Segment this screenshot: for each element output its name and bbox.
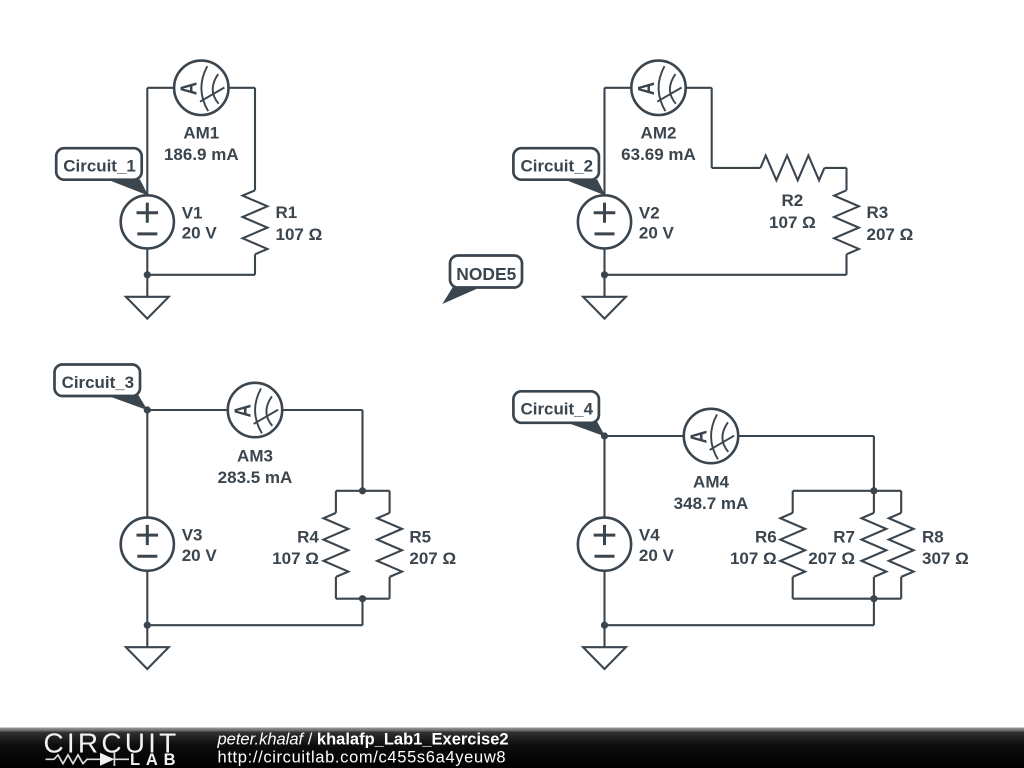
wire C4 top-right horizontal (739, 435, 874, 437)
wire C3 below parallel block (361, 599, 363, 626)
wire C3 right vertical into parallel block (361, 410, 363, 491)
wire C3 R4 top stub (335, 491, 337, 513)
wire C3 V3 bottom lead (146, 571, 148, 626)
wire C1 right vertical to R1 (254, 88, 256, 191)
wire C2 R2 to corner (824, 167, 846, 169)
wire C2 V2 bottom lead (603, 248, 605, 274)
svg-text:R2: R2 (782, 191, 804, 210)
svg-text:peter.khalaf / khalafp_Lab1_Ex: peter.khalaf / khalafp_Lab1_Exercise2 (217, 731, 509, 749)
wire C3 R4 bottom stub (335, 577, 337, 599)
node label callout Circuit_1 (56, 148, 148, 195)
svg-text:R6: R6 (755, 528, 777, 547)
ground C2 (583, 275, 626, 319)
svg-text:107 Ω: 107 Ω (272, 549, 319, 568)
wire C3 parallel top bar (336, 490, 390, 492)
node label callout Circuit_2 (513, 148, 605, 195)
resistor R2 (760, 156, 824, 181)
svg-text:R3: R3 (867, 203, 889, 222)
node junction dot C4 parallel bottom (870, 595, 877, 602)
svg-text:207 Ω: 207 Ω (867, 225, 914, 244)
footer bar (0, 728, 1024, 768)
wire C4 left vertical (603, 436, 605, 518)
svg-text:LAB: LAB (130, 751, 181, 768)
wire C2 left vertical (603, 88, 605, 196)
node junction dot C3 top-left (144, 406, 151, 413)
svg-text:V2: V2 (639, 203, 660, 222)
svg-text:AM3: AM3 (237, 446, 273, 465)
ammeter AM4 (684, 409, 738, 463)
svg-text:V3: V3 (182, 526, 203, 545)
resistor R6 (780, 513, 805, 577)
svg-text:Circuit_1: Circuit_1 (63, 157, 136, 176)
wire C2 R3 top lead (845, 168, 847, 190)
node junction dot C4 bottom-left (601, 622, 608, 629)
svg-text:AM1: AM1 (183, 124, 219, 143)
resistor R7 (862, 513, 887, 577)
svg-text:207 Ω: 207 Ω (808, 549, 855, 568)
svg-text:V4: V4 (639, 526, 660, 545)
voltage source V2 (578, 195, 631, 248)
wire C2 horizontal to R2 (712, 167, 761, 169)
node junction dot C2 (601, 271, 608, 278)
wire C4 top-left horizontal (605, 435, 684, 437)
wire C4 right vertical into parallel block (873, 436, 875, 491)
wire C4 R6 top stub (792, 491, 794, 513)
svg-text:R1: R1 (276, 203, 298, 222)
svg-text:Circuit_4: Circuit_4 (521, 400, 594, 419)
wire C4 R8 top stub (900, 491, 902, 513)
svg-text:R7: R7 (833, 528, 855, 547)
ammeter AM2 (631, 61, 685, 115)
logo diode triangle (100, 753, 114, 766)
svg-text:R8: R8 (922, 528, 944, 547)
ground C1 (126, 275, 169, 319)
svg-text:AM4: AM4 (693, 473, 729, 492)
logo resistor squiggle and diode (46, 753, 130, 766)
svg-text:348.7 mA: 348.7 mA (674, 494, 749, 513)
ammeter AM1 (174, 61, 228, 115)
wire C2 top-right horizontal (686, 87, 712, 89)
wire C4 parallel top bar (793, 490, 902, 492)
wire C3 top-left horizontal (147, 409, 227, 411)
wire C1 bottom horizontal (147, 274, 255, 276)
node label callout NODE5 (442, 256, 522, 305)
svg-text:207 Ω: 207 Ω (409, 549, 456, 568)
svg-text:V1: V1 (182, 203, 203, 222)
wire C1 top-right horizontal (229, 87, 255, 89)
wire C2 mid vertical (711, 88, 713, 168)
wire C4 V4 bottom lead (603, 571, 605, 626)
svg-text:107 Ω: 107 Ω (276, 225, 323, 244)
svg-text:20 V: 20 V (639, 224, 675, 243)
svg-text:Circuit_2: Circuit_2 (521, 157, 594, 176)
wire C3 left vertical (146, 410, 148, 518)
node junction dot C4 top-left (601, 432, 608, 439)
voltage source V1 (121, 195, 174, 248)
ammeter AM3 (228, 383, 282, 437)
svg-text:AM2: AM2 (641, 124, 677, 143)
wire C4 R7 bottom stub (873, 577, 875, 599)
wire C1 left vertical (146, 88, 148, 196)
node junction dot C3 parallel bottom (359, 595, 366, 602)
resistor R1 (243, 190, 268, 254)
ground C3 (126, 625, 169, 669)
svg-text:20 V: 20 V (182, 224, 218, 243)
wire C1 top-left horizontal (147, 87, 174, 89)
wire C2 bottom horizontal (605, 274, 847, 276)
resistor R4 (324, 513, 349, 577)
svg-text:20 V: 20 V (182, 546, 218, 565)
wire C3 top-right horizontal (283, 409, 363, 411)
node junction dot C3 parallel top (359, 487, 366, 494)
wire C1 V1 bottom lead (146, 248, 148, 274)
voltage source V4 (578, 518, 631, 571)
resistor R3 (834, 190, 859, 254)
wire C4 below parallel block (873, 599, 875, 626)
wire C3 parallel bottom bar (336, 598, 390, 600)
svg-text:http://circuitlab.com/c455s6a4: http://circuitlab.com/c455s6a4yeuw8 (218, 748, 507, 766)
svg-text:R4: R4 (297, 528, 319, 547)
svg-text:Circuit_3: Circuit_3 (62, 373, 135, 392)
resistor R5 (377, 513, 402, 577)
svg-text:63.69 mA: 63.69 mA (621, 145, 696, 164)
wire C4 R6 bottom stub (792, 577, 794, 599)
svg-text:NODE5: NODE5 (456, 264, 516, 284)
wire C1 R1 bottom lead (254, 254, 256, 274)
svg-text:107 Ω: 107 Ω (730, 549, 777, 568)
resistor R8 (889, 513, 914, 577)
node junction dot C4 parallel top (870, 487, 877, 494)
svg-text:186.9 mA: 186.9 mA (164, 145, 239, 164)
svg-text:283.5 mA: 283.5 mA (218, 468, 293, 487)
node label callout Circuit_3 (55, 365, 148, 411)
wire C3 R5 top stub (389, 491, 391, 513)
svg-text:107 Ω: 107 Ω (769, 213, 816, 232)
wire C2 top-left horizontal (605, 87, 632, 89)
wire C4 R8 bottom stub (900, 577, 902, 599)
svg-text:R5: R5 (409, 528, 431, 547)
wire C4 R7 top stub (873, 491, 875, 513)
wire C3 bottom horizontal (147, 624, 362, 626)
wire C4 parallel bottom bar (793, 598, 902, 600)
wire C4 bottom horizontal (605, 624, 874, 626)
voltage source V3 (121, 518, 174, 571)
svg-text:20 V: 20 V (639, 546, 675, 565)
node junction dot C3 bottom-left (144, 622, 151, 629)
node label callout Circuit_4 (513, 391, 605, 436)
wire C2 R3 bottom lead (845, 254, 847, 274)
wire C3 R5 bottom stub (389, 577, 391, 599)
svg-text:307 Ω: 307 Ω (922, 549, 969, 568)
node junction dot C1 (144, 271, 151, 278)
ground C4 (583, 625, 626, 669)
